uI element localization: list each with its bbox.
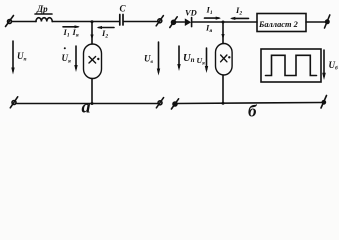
arrowhead Iya down (circuit b) bbox=[221, 34, 224, 40]
wire lamp bottom to bottom rail (circuit a) bbox=[91, 79, 93, 104]
current arrow I2 (circuit a) bbox=[97, 26, 114, 29]
current arrow I1 (circuit b) bbox=[205, 17, 222, 20]
wire junction down to lamp (circuit b) bbox=[222, 22, 224, 44]
svg-text:VD: VD bbox=[185, 8, 197, 18]
svg-text:C: C bbox=[120, 4, 127, 14]
terminal top-left (circuit b) bbox=[170, 17, 177, 28]
waveform box bbox=[261, 49, 321, 82]
wire inductor to capacitor bbox=[52, 21, 119, 23]
voltage arrow Up (circuit a) bbox=[11, 41, 14, 75]
wire capacitor to right terminal bbox=[124, 21, 157, 23]
wire diode to ballast box bbox=[192, 21, 257, 23]
diode VD bbox=[185, 18, 192, 27]
voltage arrow Uya (circuit b) bbox=[205, 48, 208, 73]
svg-text:Uп: Uп bbox=[183, 53, 195, 64]
node junction bottom (circuit b) bbox=[222, 102, 225, 105]
wire junction down to lamp (circuit a) bbox=[91, 22, 93, 45]
current arrow I2 (circuit b) bbox=[230, 17, 249, 20]
current arrow I1 (circuit a) bbox=[63, 25, 80, 28]
node junction top (circuit a) bbox=[91, 20, 94, 23]
voltage arrow Up (circuit b) bbox=[177, 46, 180, 71]
wire to diode bbox=[176, 21, 185, 23]
wire top-left to inductor bbox=[12, 21, 37, 23]
terminal bottom-right (circuit a) bbox=[156, 98, 163, 108]
lamp VL1 (circuit a) bbox=[84, 44, 102, 79]
terminal top-right (circuit a) bbox=[156, 16, 163, 26]
terminal bottom-right (circuit b) bbox=[321, 96, 327, 109]
voltage arrow Ub bbox=[322, 50, 326, 80]
capacitor C1 bbox=[120, 15, 123, 26]
lamp VL2 (circuit b) bbox=[216, 44, 233, 76]
voltage arrow Uv bbox=[157, 42, 160, 76]
voltage arrow Uya bbox=[74, 46, 77, 72]
bottom rail (circuit a) bbox=[17, 103, 158, 105]
svg-text:Др: Др bbox=[36, 4, 48, 14]
wire ballast to right terminal bbox=[306, 21, 325, 23]
ballast box (Ballast 2) bbox=[257, 14, 306, 32]
bottom rail (circuit b) bbox=[178, 103, 322, 104]
wire lamp bottom to bottom rail (circuit b) bbox=[222, 75, 224, 103]
inductor Dr bbox=[35, 14, 52, 22]
terminal bottom-left (circuit b) bbox=[171, 99, 178, 109]
terminal top-left (circuit a) bbox=[6, 16, 14, 27]
terminal bottom-left (circuit a) bbox=[10, 97, 17, 108]
node junction bottom (circuit a) bbox=[91, 102, 94, 105]
waveform square pulses bbox=[266, 55, 317, 75]
svg-text:а: а bbox=[82, 97, 91, 117]
node junction top (circuit b) bbox=[222, 21, 225, 24]
terminal top-right (circuit b) bbox=[325, 15, 330, 28]
arrowhead Iya down bbox=[90, 35, 93, 41]
svg-text:Балласт 2: Балласт 2 bbox=[258, 20, 298, 29]
